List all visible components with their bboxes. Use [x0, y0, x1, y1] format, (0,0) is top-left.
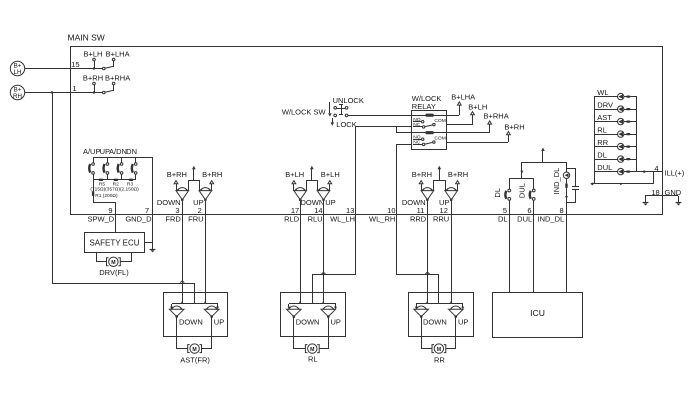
illumination LED DUL [594, 163, 637, 175]
wire W/LOCK SW to relay coil 1 [348, 115, 426, 117]
junction arrow on RLU wire [322, 272, 326, 274]
wire DUL to ICU [533, 214, 535, 292]
resistor R1 [92, 191, 94, 196]
svg-text:DUL: DUL [517, 215, 532, 224]
front window DOWN/UP contacts (FRD/FRU) [157, 166, 222, 214]
svg-text:(715Ω)(357Ω)(2,150Ω): (715Ω)(357Ω)(2,150Ω) [90, 186, 139, 192]
svg-text:WL_RH: WL_RH [369, 215, 395, 224]
wire illumination right bus [636, 97, 638, 172]
DOWN / UP labels in RL box [296, 318, 341, 327]
svg-text:B+LH: B+LH [321, 170, 340, 179]
svg-text:DL: DL [597, 151, 607, 160]
motor RR [422, 317, 456, 365]
resistor R2 [114, 179, 119, 181]
svg-text:FRU: FRU [188, 215, 203, 224]
wire tap NC1 to relay 2 coil [397, 127, 413, 133]
svg-text:R1 (200Ω): R1 (200Ω) [95, 193, 118, 199]
svg-text:B+RH: B+RH [504, 122, 524, 131]
svg-text:DOWN: DOWN [402, 198, 426, 207]
output arrow B+RH (relay 2 COM) [447, 122, 525, 142]
wire SPW_D to SAFETY ECU [115, 214, 117, 232]
resistor R5 [99, 179, 104, 181]
output arrow B+LH (relay 1 COM) [447, 102, 487, 125]
illumination LED RL [594, 126, 637, 138]
svg-text:NO: NO [413, 117, 421, 123]
terminal 10 WL_RH [369, 206, 395, 224]
illumination LED RR [594, 138, 637, 150]
wire DL to ICU [509, 214, 511, 292]
svg-text:B+LHA: B+LHA [451, 93, 475, 102]
svg-text:WL_LH: WL_LH [330, 215, 355, 224]
wires into AST(FR) driver box [170, 214, 219, 309]
output arrow B+LHA (coil 1 feed) [447, 93, 475, 116]
junction arrow on ILL wire [644, 170, 647, 173]
driver box RR [409, 293, 474, 337]
svg-text:RL: RL [597, 126, 607, 135]
svg-text:UP: UP [193, 198, 203, 207]
svg-text:B+LH: B+LH [285, 170, 304, 179]
capacitor branch lower half [566, 190, 576, 203]
battery feed B+RH circle [10, 85, 24, 100]
indicator LED IND_DL with resistor and capacitor branch [552, 162, 579, 214]
svg-text:B+LH: B+LH [468, 102, 487, 111]
contact triangle in RR box [414, 306, 429, 318]
terminal 18 GND [645, 188, 682, 197]
svg-text:RR: RR [597, 138, 608, 147]
MAIN SW outer box [71, 47, 663, 215]
svg-text:IND_DL: IND_DL [552, 168, 561, 195]
svg-text:DRV(FL): DRV(FL) [99, 268, 129, 277]
rear-right window DOWN/UP contacts (RRD/RRU) [402, 166, 468, 214]
terminal 14 RLU [308, 206, 323, 224]
wire B+RH drop to AST(FR) driver feed [51, 91, 53, 93]
svg-text:NC: NC [413, 122, 421, 128]
SAFETY ECU box [85, 233, 145, 253]
svg-text:UNLOCK: UNLOCK [333, 96, 364, 105]
wire rail to terminal 7 GND_D [152, 157, 154, 214]
terminal 11 RRD [410, 206, 427, 224]
svg-text:DOWN: DOWN [301, 198, 325, 207]
svg-text:RR: RR [434, 356, 445, 365]
DOWN / UP labels in AST(FR) box [179, 318, 224, 327]
motor DRV(FL) [97, 253, 132, 277]
svg-text:RLU: RLU [308, 215, 323, 224]
terminal 3 FRD [165, 206, 181, 224]
wire IND_DL to ICU [566, 214, 568, 292]
svg-text:DN: DN [126, 147, 137, 156]
svg-text:4: 4 [654, 164, 658, 173]
svg-text:AST: AST [597, 113, 612, 122]
wire B+RH feed to terminal 1 [25, 92, 104, 94]
svg-text:M: M [437, 347, 441, 353]
svg-text:DOWN: DOWN [296, 318, 320, 327]
switch contact B+LH/B+LHA row (terminal 15) [84, 49, 130, 69]
svg-text:DOWN: DOWN [423, 318, 447, 327]
wire switch rail [93, 157, 152, 159]
wire GND_D to ground [144, 214, 153, 243]
wire DUL lamp row to terminal 4 ILL(+) [637, 171, 662, 173]
motor RL [294, 317, 329, 364]
switch DL (terminal 5) [493, 179, 511, 214]
svg-text:DL: DL [498, 215, 508, 224]
resistor R3 [129, 179, 134, 181]
junction arrow on FRD wire [180, 281, 184, 283]
svg-text:A/UP: A/UP [83, 147, 101, 156]
output arrow B+RHA (coil 2 feed) [447, 112, 509, 133]
ground at SAFETY ECU [152, 243, 154, 249]
junction arrow on RRD wire [425, 272, 429, 274]
wire WL_RH to relay 2 NC [397, 145, 413, 215]
ICU box [493, 293, 583, 338]
illumination LED AST [594, 113, 637, 125]
wire WL_LH feed to RL driver box [313, 214, 356, 292]
svg-text:MAIN SW: MAIN SW [68, 32, 105, 42]
switch A/DN [109, 147, 127, 180]
svg-text:ILL(+): ILL(+) [665, 168, 685, 177]
wires into RR driver box [415, 214, 465, 309]
svg-text:A/DN: A/DN [109, 147, 127, 156]
svg-text:UP: UP [439, 198, 449, 207]
svg-text:W/LOCK SW: W/LOCK SW [282, 107, 327, 116]
svg-text:B+RHA: B+RHA [105, 73, 130, 82]
svg-text:1: 1 [72, 84, 76, 93]
terminal 5 DL [498, 206, 508, 224]
wire illumination left bus [594, 97, 596, 184]
svg-text:B+RH: B+RH [448, 170, 468, 179]
svg-text:LOCK: LOCK [336, 120, 356, 129]
switch A/UP [83, 147, 101, 180]
svg-text:FRD: FRD [165, 215, 181, 224]
svg-text:DOWN: DOWN [157, 198, 181, 207]
wire lamp bottom rail to ILL riser [590, 172, 654, 186]
battery feed B+LH circle [10, 61, 24, 76]
contact triangle in RL box [321, 306, 336, 318]
svg-text:M: M [192, 347, 196, 353]
DOWN / UP labels in RR box [423, 318, 468, 327]
wire WL_LH to relay 1 NC [356, 127, 413, 215]
terminal 7 GND_D [125, 206, 152, 224]
switch UP [100, 147, 110, 180]
driver box AST(FR) [164, 293, 228, 337]
driver box RL [281, 293, 346, 337]
terminal 9 SPW_D [88, 206, 115, 224]
svg-text:DUL: DUL [518, 183, 527, 198]
svg-text:RLD: RLD [284, 215, 300, 224]
terminal 12 RRU [433, 206, 449, 224]
illumination LED WL [594, 88, 637, 100]
svg-text:UP: UP [214, 318, 224, 327]
svg-text:ICU: ICU [530, 308, 545, 318]
terminal 13 WL_LH [330, 206, 355, 224]
wire ladder to terminal 9 SPW_D [94, 180, 116, 214]
illumination LED DRV [594, 101, 637, 113]
wire WL_RH feed to RR driver box [397, 214, 439, 292]
svg-text:DRV: DRV [597, 101, 613, 110]
svg-text:RELAY: RELAY [412, 102, 436, 111]
svg-text:COM: COM [434, 136, 445, 142]
svg-text:RRD: RRD [410, 215, 427, 224]
multiplex switch block A/UP UP A/DN DN [83, 147, 153, 214]
svg-text:LH: LH [14, 69, 22, 76]
svg-text:B+LH: B+LH [84, 49, 103, 58]
switch DUL (terminal 6) [518, 179, 536, 214]
contact triangle in AST(FR) box [204, 306, 219, 318]
svg-text:B+RHA: B+RHA [484, 112, 509, 121]
svg-text:SAFETY ECU: SAFETY ECU [89, 239, 139, 248]
svg-text:B+RH: B+RH [412, 170, 432, 179]
svg-text:RRU: RRU [433, 215, 449, 224]
door lock switch rail with B+ arrow [509, 148, 566, 179]
svg-text:RH: RH [13, 93, 22, 100]
ground right of terminal 18 [678, 196, 680, 202]
contact triangle in RL box [287, 306, 302, 318]
svg-text:RL: RL [308, 355, 318, 364]
wires into RL driver box [288, 214, 338, 309]
wire B+LH feed to terminal 15 [25, 68, 104, 70]
window lock switch W/LOCK SW [282, 96, 364, 129]
motor AST(FR) [177, 317, 212, 365]
relay W/LOCK RELAY [412, 94, 447, 150]
terminal 6 DUL [517, 206, 532, 224]
wire resistor ladder rail [93, 179, 136, 181]
ground left of terminal 18 [645, 196, 647, 202]
terminal 2 FRU [188, 206, 203, 224]
svg-text:UP: UP [331, 318, 341, 327]
svg-text:AST(FR): AST(FR) [180, 356, 210, 365]
svg-text:B+RH: B+RH [83, 73, 103, 82]
rear-left window DOWN/UP contacts (RLD/RLU) [285, 166, 340, 214]
svg-text:COM: COM [434, 118, 445, 124]
svg-text:SPW_D: SPW_D [88, 215, 115, 224]
svg-text:IND_DL: IND_DL [538, 215, 565, 224]
svg-text:UP: UP [325, 198, 335, 207]
svg-text:B+LHA: B+LHA [106, 49, 130, 58]
illumination LED DL [594, 151, 637, 163]
svg-text:15: 15 [71, 60, 79, 69]
terminal 17 RLD [284, 206, 300, 224]
switch DN [126, 147, 137, 180]
svg-text:GND_D: GND_D [125, 215, 152, 224]
svg-text:WL: WL [597, 88, 608, 97]
terminal 8 IND_DL [538, 206, 565, 224]
contact triangle in AST(FR) box [169, 306, 184, 318]
relay 2 coil and NO/NC/COM contacts [412, 131, 447, 146]
svg-text:UP: UP [458, 318, 468, 327]
relay 1 coil and NO/NC/COM contacts [412, 114, 447, 129]
svg-text:B+RH: B+RH [167, 170, 187, 179]
svg-text:M: M [310, 347, 314, 353]
svg-text:DOWN: DOWN [179, 318, 203, 327]
contact triangle in RR box [449, 306, 464, 318]
svg-text:B+RH: B+RH [202, 170, 222, 179]
svg-text:DUL: DUL [597, 163, 612, 172]
switch contact B+RH/B+RHA row (terminal 1) [83, 73, 130, 93]
svg-text:M: M [111, 260, 115, 266]
svg-text:DL: DL [493, 188, 502, 198]
